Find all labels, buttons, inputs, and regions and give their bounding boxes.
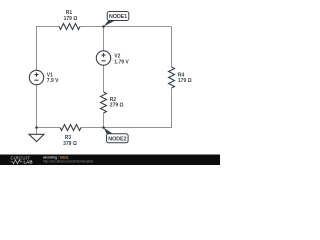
svg-text:V2: V2 [114,53,120,59]
svg-text:379 Ω: 379 Ω [63,141,77,147]
svg-text:7.9 V: 7.9 V [47,78,59,84]
svg-text:179 Ω: 179 Ω [178,78,192,84]
svg-text:279 Ω: 279 Ω [110,103,124,109]
svg-text:R1: R1 [66,10,73,16]
svg-text:LAB: LAB [24,160,33,165]
svg-text:http://circuitlab.com/c6d7pr4z: http://circuitlab.com/c6d7pr4znakl3c [43,160,94,164]
svg-text:179 Ω: 179 Ω [64,16,78,22]
svg-text:1.79 V: 1.79 V [114,60,129,66]
svg-text:NODE2: NODE2 [108,136,126,142]
svg-text:NODE1: NODE1 [109,14,127,20]
svg-text:R3: R3 [65,135,72,141]
